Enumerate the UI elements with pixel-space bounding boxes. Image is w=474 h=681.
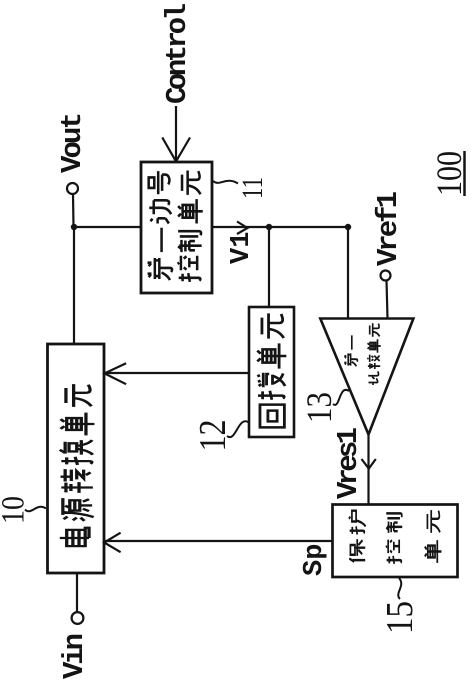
- wire: node C to comparator + input: [347, 227, 349, 318]
- block 15 text row1: bao hu: [349, 511, 366, 562]
- block 15: protection control unit box: [333, 505, 458, 578]
- block 15 text row3: dan yuan: [425, 510, 442, 563]
- svg-text:Vref1: Vref1: [372, 191, 405, 266]
- arrowhead: Sp wire into power unit: [104, 533, 120, 553]
- wire: box 11 to node C (V1 bus): [212, 226, 348, 228]
- block 10: power conversion unit box: [48, 344, 105, 573]
- wire: Vref1 terminal to comparator - input: [387, 281, 388, 319]
- wire: node B to feedback unit: [268, 227, 270, 307]
- terminal circle Vin: [72, 612, 84, 624]
- squiggle leader for 13: [333, 390, 349, 405]
- comparator text row2: bi jiao dan yuan: [367, 323, 381, 385]
- block 11 text row2: kong zhi dan yuan: [178, 171, 203, 282]
- svg-text:11: 11: [236, 177, 269, 199]
- arrowhead: Control into box 11: [162, 138, 190, 162]
- terminal circle Vout: [67, 183, 78, 194]
- wire: protection unit to power unit (Sp): [104, 540, 333, 542]
- wire: feedback unit to power unit: [104, 372, 249, 374]
- block 15 text row2: kong zhi: [386, 513, 402, 564]
- node B junction dot: [266, 224, 272, 230]
- svg-text:Vout: Vout: [56, 112, 89, 173]
- wire: node A to Vout terminal: [72, 194, 75, 227]
- squiggle leader for 15: [398, 578, 401, 599]
- squiggle leader for 10: [25, 507, 46, 512]
- squiggle leader for 11: [213, 181, 238, 184]
- arrowhead: comparator output into protection unit: [362, 459, 376, 469]
- block 12: feedback unit box: [249, 307, 294, 437]
- wire: node A down into box 11: [74, 226, 141, 228]
- node A junction dot: [71, 224, 77, 230]
- wire: Control label to box 11: [175, 106, 177, 161]
- svg-text:15: 15: [379, 601, 421, 634]
- terminal circle Vref1: [381, 271, 391, 281]
- block 11: first signal control unit box: [141, 162, 212, 293]
- svg-text:Control: Control: [161, 3, 194, 104]
- svg-text:V1: V1: [227, 232, 257, 264]
- wire: Vin terminal to power unit: [76, 573, 78, 612]
- svg-text:100: 100: [429, 151, 469, 196]
- wire: comparator output to protection unit: [367, 435, 369, 506]
- wire: power unit right edge to node A: [73, 227, 75, 344]
- svg-text:Vres1: Vres1: [332, 427, 365, 499]
- arrowhead: V1 direction on bus: [237, 222, 248, 235]
- block 12 text: hui shou dan yuan: [257, 313, 286, 427]
- comparator U13 triangle: first comparison unit: [320, 319, 413, 435]
- svg-text:Vin: Vin: [58, 633, 91, 679]
- svg-text:Sp: Sp: [300, 544, 330, 576]
- block 10 text: dian yuan zhuan huan dan yuan: [60, 384, 95, 546]
- squiggle leader for 12: [227, 421, 249, 437]
- block 11 text row1: di yi xun hao: [148, 171, 172, 280]
- comparator text row1: di yi: [344, 335, 357, 366]
- node C junction dot: [345, 224, 351, 230]
- arrowhead: feedback wire into power unit: [105, 363, 127, 384]
- svg-text:13: 13: [299, 392, 339, 423]
